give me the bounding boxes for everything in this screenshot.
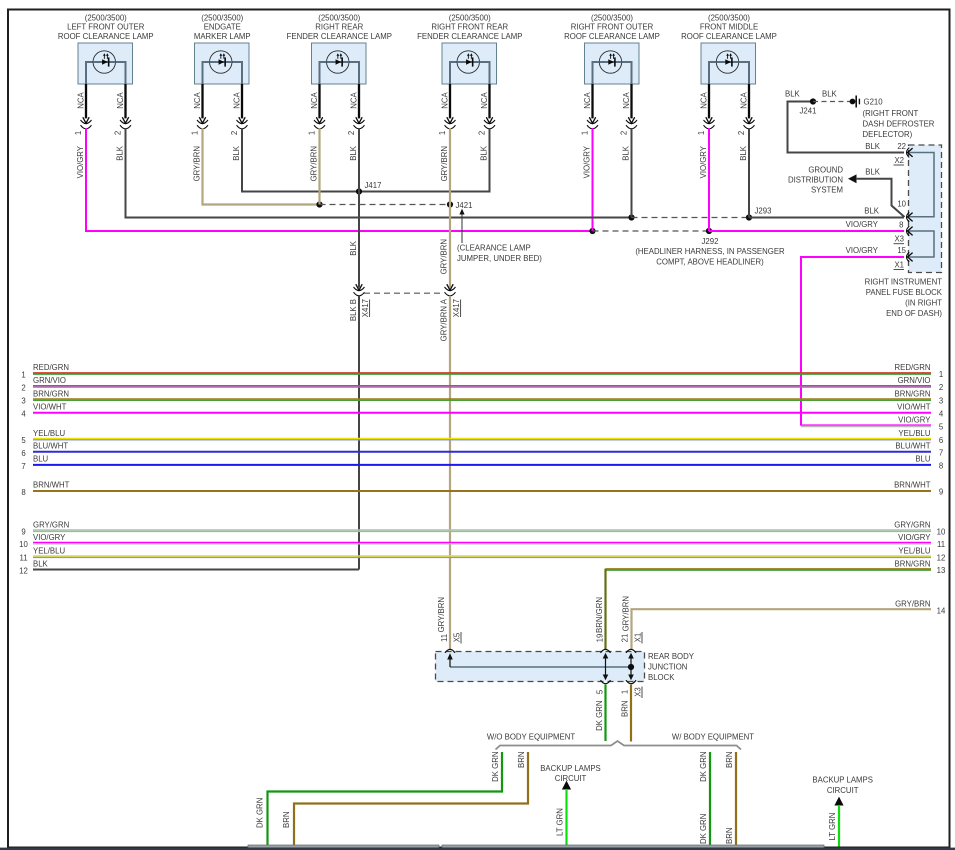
arrow backup lamps circuit (right): [834, 797, 843, 806]
svg-text:9: 9: [939, 488, 943, 497]
svg-text:2: 2: [737, 131, 746, 135]
svg-text:YEL/BLU: YEL/BLU: [898, 429, 930, 438]
wire LT GRN backup lamps (left): [565, 789, 567, 847]
svg-text:BLK: BLK: [349, 240, 358, 256]
junction block through-arrow at x=605.5: [605, 657, 607, 677]
labels circuit row BLU: [21, 455, 943, 471]
svg-text:ENDGATE: ENDGATE: [204, 23, 241, 32]
wire VIO/GRY from lamp B5 pin 1: [592, 128, 594, 231]
lamp B4 right front rear fender clearance lamp: [417, 13, 522, 84]
svg-text:GRY/BRN: GRY/BRN: [440, 146, 449, 181]
svg-text:CIRCUIT: CIRCUIT: [555, 774, 587, 783]
svg-text:VIO/WHT: VIO/WHT: [897, 402, 931, 411]
junction J293: [746, 214, 752, 220]
node G210 terminal: [850, 99, 856, 105]
svg-text:FENDER CLEARANCE LAMP: FENDER CLEARANCE LAMP: [287, 32, 392, 41]
svg-text:2: 2: [230, 131, 239, 135]
svg-text:8: 8: [899, 221, 903, 230]
svg-text:YEL/BLU: YEL/BLU: [33, 546, 65, 555]
bottom component edge (grey bar right): [442, 845, 824, 848]
svg-text:6: 6: [939, 436, 943, 445]
svg-text:DISTRIBUTION: DISTRIBUTION: [788, 176, 843, 185]
svg-text:DK GRN: DK GRN: [491, 752, 500, 782]
wire circuit row 12 BLK: [33, 569, 359, 571]
svg-text:ROOF CLEARANCE LAMP: ROOF CLEARANCE LAMP: [681, 32, 777, 41]
label rear body junction block: [648, 652, 695, 682]
svg-text:BRN: BRN: [725, 828, 734, 844]
connector junction block pin 5 bottom: [601, 680, 611, 684]
svg-text:6: 6: [21, 449, 25, 458]
wire lamp pin 1 NCA lead with connector: [580, 84, 598, 135]
svg-text:DK GRN: DK GRN: [595, 701, 604, 731]
svg-text:RIGHT FRONT OUTER: RIGHT FRONT OUTER: [571, 23, 654, 32]
svg-text:X2: X2: [894, 156, 904, 165]
labels circuit row 12 BLK: [19, 560, 48, 576]
junction block pin 11 arrow: [449, 658, 451, 668]
wire circuit row BLU/WHT: [33, 451, 931, 453]
svg-text:NCA: NCA: [440, 91, 449, 108]
wire circuit row BLU: [33, 464, 931, 466]
bottom component edge (grey bar left): [248, 845, 439, 848]
wire BRN w/o body equipment: [294, 752, 528, 847]
svg-text:7: 7: [21, 462, 25, 471]
svg-text:GRY/BRN: GRY/BRN: [437, 597, 446, 632]
svg-text:GRY/BRN: GRY/BRN: [895, 599, 930, 608]
wire lamp pin 2 NCA lead with connector: [619, 84, 637, 135]
svg-text:J417: J417: [365, 181, 382, 190]
wire BLK to J241 and fuse block pin 22: [788, 102, 905, 153]
svg-text:21: 21: [621, 634, 630, 643]
wire dashed jumper GRY/BRN to J421: [320, 204, 451, 206]
svg-text:BLK: BLK: [115, 145, 124, 161]
svg-text:5: 5: [939, 423, 944, 432]
svg-text:NCA: NCA: [76, 91, 85, 108]
svg-text:9: 9: [21, 528, 25, 537]
svg-text:BLK: BLK: [33, 560, 49, 569]
wire GRY/BRN lamp B2 pin 1: [203, 128, 320, 205]
wire dashed jumper VIO/GRY to J292: [593, 230, 710, 232]
svg-text:7: 7: [939, 449, 943, 458]
wire circuit row BRN/GRN: [33, 399, 931, 400]
svg-text:BRN/GRN: BRN/GRN: [895, 560, 931, 569]
svg-text:4: 4: [939, 409, 944, 418]
labels circuit row BRN/GRN: [21, 389, 943, 405]
svg-text:RIGHT FRONT REAR: RIGHT FRONT REAR: [431, 23, 508, 32]
svg-text:1: 1: [580, 131, 589, 135]
svg-text:BRN: BRN: [282, 812, 291, 828]
wire circuit row YEL/BLU: [33, 556, 931, 557]
connector junction block pin 1 bottom: [626, 680, 636, 684]
svg-text:J421: J421: [456, 201, 473, 210]
callout arrow clearance lamp jumper: [461, 212, 463, 243]
wire circuit row VIO/WHT: [33, 412, 931, 414]
svg-text:BLU: BLU: [33, 455, 49, 464]
svg-text:GRY/GRN: GRY/GRN: [33, 520, 69, 529]
wire BLK lamp B4 pin 2 to J417: [359, 128, 490, 192]
svg-text:BACKUP LAMPS: BACKUP LAMPS: [540, 764, 601, 773]
svg-text:JUNCTION: JUNCTION: [648, 662, 687, 671]
labels circuit row BLU/WHT: [21, 442, 943, 458]
wire circuit row YEL/BLU: [33, 438, 931, 439]
junction J417: [356, 188, 362, 194]
svg-text:NCA: NCA: [739, 91, 748, 108]
wire BLK lamp B2 pin 2 to J417: [242, 128, 359, 192]
svg-text:10: 10: [19, 540, 28, 549]
svg-text:BLK: BLK: [865, 142, 881, 151]
svg-text:VIO/WHT: VIO/WHT: [33, 402, 67, 411]
svg-text:RIGHT REAR: RIGHT REAR: [315, 23, 363, 32]
wire DK GRN junction block pin 5: [604, 685, 606, 742]
branch brace W/O / W/ body equipment: [496, 741, 742, 750]
svg-text:NCA: NCA: [116, 91, 125, 108]
svg-text:BLK: BLK: [785, 90, 801, 99]
labels circuit row VIO/GRY: [898, 416, 944, 432]
wire BRN w/ body equipment: [735, 752, 737, 847]
svg-text:BLU/WHT: BLU/WHT: [33, 442, 68, 451]
label right instrument panel fuse block: [865, 278, 943, 319]
wire lamp pin 2 NCA lead with connector: [347, 84, 365, 135]
junction block through-arrow at x=631: [630, 657, 632, 677]
wire BLK from lamp B1 pin 2: [126, 128, 632, 218]
svg-text:BRN: BRN: [725, 752, 734, 768]
svg-text:VIO/GRY: VIO/GRY: [846, 220, 879, 229]
svg-text:ROOF CLEARANCE LAMP: ROOF CLEARANCE LAMP: [564, 32, 660, 41]
wire BRN/GRN down to junction block pin 19: [604, 569, 606, 649]
labels circuit row GRY/GRN: [21, 520, 946, 536]
svg-text:J293: J293: [755, 207, 772, 216]
svg-text:NCA: NCA: [622, 91, 631, 108]
svg-text:5: 5: [21, 436, 26, 445]
svg-text:COMPT, ABOVE HEADLINER): COMPT, ABOVE HEADLINER): [656, 257, 764, 266]
svg-text:(IN RIGHT: (IN RIGHT: [905, 299, 942, 308]
svg-text:(2500/3500): (2500/3500): [708, 13, 750, 22]
wire BLK J293 to fuse block pin 10: [749, 217, 904, 219]
node junction block splice: [628, 664, 634, 670]
svg-text:11: 11: [440, 634, 449, 642]
wire GRY/BRN lamp B4 pin 1 through J421: [449, 128, 451, 288]
svg-text:X3: X3: [634, 687, 643, 697]
wire BLK lamp B3 pin 2 down through J417 to circuit 12: [358, 128, 360, 288]
svg-text:GRY/BRN: GRY/BRN: [309, 146, 318, 181]
ground G210 symbol: [855, 96, 857, 108]
svg-text:PANEL FUSE BLOCK: PANEL FUSE BLOCK: [866, 288, 943, 297]
svg-text:19: 19: [596, 634, 605, 643]
svg-text:1: 1: [190, 131, 199, 135]
svg-text:NCA: NCA: [480, 91, 489, 108]
svg-text:X1: X1: [634, 633, 643, 643]
svg-text:YEL/BLU: YEL/BLU: [898, 546, 930, 555]
svg-text:BRN/WHT: BRN/WHT: [33, 481, 70, 490]
svg-text:BRN/GRN: BRN/GRN: [33, 389, 69, 398]
svg-text:15: 15: [897, 246, 906, 255]
svg-text:(CLEARANCE LAMP: (CLEARANCE LAMP: [457, 244, 531, 253]
svg-text:8: 8: [21, 488, 25, 497]
svg-text:2: 2: [347, 131, 356, 135]
connector fuse block pin 8 (X3): [907, 226, 910, 236]
wire DK GRN w/ body equipment: [709, 752, 711, 847]
wire GRY/BRN continuation to junction block pin 11: [449, 296, 451, 649]
svg-text:4: 4: [21, 410, 26, 419]
svg-text:1: 1: [21, 371, 25, 380]
labels circuit row YEL/BLU: [21, 429, 943, 445]
svg-text:BLU/WHT: BLU/WHT: [895, 442, 930, 451]
wire circuit row 13 BRN/GRN: [606, 569, 932, 570]
svg-text:(2500/3500): (2500/3500): [201, 13, 243, 22]
label backup lamps circuit (right): [812, 776, 873, 795]
wire lamp pin 2 NCA lead with connector: [737, 84, 755, 135]
svg-text:JUMPER, UNDER BED): JUMPER, UNDER BED): [457, 254, 542, 263]
svg-text:BLK: BLK: [739, 145, 748, 161]
svg-text:BLK: BLK: [865, 167, 881, 176]
svg-text:22: 22: [897, 142, 906, 151]
svg-text:BRN/WHT: BRN/WHT: [894, 481, 931, 490]
svg-text:(2500/3500): (2500/3500): [318, 13, 360, 22]
svg-text:LEFT FRONT OUTER: LEFT FRONT OUTER: [67, 23, 145, 32]
svg-text:GRY/BRN: GRY/BRN: [439, 239, 448, 274]
wire circuit row 14 GRY/BRN: [632, 609, 932, 649]
wire lamp pin 1 NCA lead with connector: [190, 84, 208, 135]
svg-text:BLK: BLK: [864, 207, 880, 216]
svg-text:RIGHT INSTRUMENT: RIGHT INSTRUMENT: [865, 278, 943, 287]
svg-text:X3: X3: [894, 235, 904, 244]
connector X417 cavity A: [447, 284, 453, 290]
svg-text:RED/GRN: RED/GRN: [33, 363, 69, 372]
svg-text:BLU: BLU: [915, 455, 931, 464]
wire dashed BLK J241 to G210: [813, 101, 853, 103]
junction J421: [447, 201, 453, 207]
wire GRY/BRN lamp B3 pin 1: [318, 128, 320, 205]
junction J292: [706, 228, 712, 234]
labels circuit row VIO/WHT: [21, 402, 944, 418]
svg-text:X1: X1: [894, 260, 904, 269]
labels circuit row 13 BRN/GRN: [895, 560, 946, 576]
fuse block internal wire 8-15: [907, 231, 934, 257]
svg-text:VIO/GRY: VIO/GRY: [699, 145, 708, 178]
wire LT GRN backup lamps (right): [838, 805, 840, 847]
svg-text:2: 2: [939, 383, 943, 392]
connector X417 cavity B: [356, 284, 362, 290]
lamp B2 endgate marker lamp: [194, 13, 251, 84]
svg-text:DASH DEFROSTER: DASH DEFROSTER: [863, 120, 935, 129]
svg-text:BLK: BLK: [621, 145, 630, 161]
right instrument panel fuse block body: [909, 145, 942, 273]
labels circuit row YEL/BLU: [19, 546, 945, 562]
wire lamp pin 2 NCA lead with connector: [477, 84, 495, 135]
svg-text:GRN/VIO: GRN/VIO: [898, 376, 931, 385]
svg-text:BRN: BRN: [620, 701, 629, 717]
svg-text:BACKUP LAMPS: BACKUP LAMPS: [812, 776, 873, 785]
wire circuit row GRY/GRN: [33, 530, 931, 531]
svg-text:GROUND: GROUND: [808, 165, 843, 174]
svg-text:2: 2: [477, 131, 486, 135]
svg-text:RED/GRN: RED/GRN: [895, 363, 931, 372]
labels circuit row GRN/VIO: [21, 376, 943, 392]
arrow backup lamps circuit (left): [562, 781, 571, 790]
labels circuit row VIO/GRY: [19, 533, 945, 549]
svg-text:1: 1: [939, 370, 943, 379]
bottom cut-off band: [0, 848, 955, 850]
svg-text:END OF DASH): END OF DASH): [886, 309, 942, 318]
junction J241: [810, 98, 816, 104]
label J292 callout: [635, 237, 785, 266]
svg-text:BRN/GRN: BRN/GRN: [895, 389, 931, 398]
connector fuse block pin 10 (X2): [907, 212, 910, 222]
wire circuit row VIO/GRY: [801, 425, 931, 426]
svg-text:(2500/3500): (2500/3500): [449, 13, 491, 22]
svg-text:X5: X5: [453, 632, 462, 642]
svg-text:J292: J292: [702, 237, 719, 246]
svg-text:NCA: NCA: [699, 91, 708, 108]
svg-text:1: 1: [74, 131, 83, 135]
connector fuse block pin 15 (X1): [907, 252, 910, 262]
svg-text:GRY/BRN: GRY/BRN: [621, 596, 630, 631]
svg-text:BLK: BLK: [822, 90, 838, 99]
node splice on BLK (B5 join): [628, 214, 634, 220]
wire circuit row BRN/WHT: [33, 490, 931, 492]
svg-text:(HEADLINER HARNESS, IN PASSENG: (HEADLINER HARNESS, IN PASSENGER: [635, 247, 785, 256]
svg-text:NCA: NCA: [193, 91, 202, 108]
svg-text:LT GRN: LT GRN: [828, 813, 837, 841]
wire lamp pin 2 NCA lead with connector: [230, 84, 248, 135]
svg-text:X417: X417: [452, 299, 461, 317]
svg-text:BLK: BLK: [349, 145, 358, 161]
svg-text:GRN/VIO: GRN/VIO: [33, 376, 66, 385]
wire BLK fuse block pin 10 to ground distribution: [856, 179, 905, 217]
svg-text:(2500/3500): (2500/3500): [591, 13, 633, 22]
wire BLK continuation to circuit 12: [358, 296, 360, 570]
wire BLK from lamp B5 pin 2: [631, 128, 633, 218]
svg-text:BRN: BRN: [517, 752, 526, 768]
svg-text:3: 3: [939, 396, 943, 405]
svg-text:NCA: NCA: [583, 91, 592, 108]
junction block internal wire: [450, 666, 631, 668]
wire circuit row RED/GRN: [33, 373, 931, 374]
svg-text:BLK: BLK: [479, 145, 488, 161]
label clearance lamp jumper: [457, 244, 542, 264]
connector junction block pin 11 (X5): [445, 649, 455, 653]
svg-text:DEFLECTOR): DEFLECTOR): [863, 130, 913, 139]
svg-text:W/O BODY EQUIPMENT: W/O BODY EQUIPMENT: [487, 732, 575, 741]
arrow to ground distribution system: [848, 174, 857, 183]
svg-text:8: 8: [939, 462, 943, 471]
svg-text:CIRCUIT: CIRCUIT: [827, 786, 859, 795]
svg-text:SYSTEM: SYSTEM: [811, 186, 843, 195]
svg-text:13: 13: [937, 566, 946, 575]
labels circuit row RED/GRN: [21, 363, 943, 379]
connector X417 dashed tie: [364, 292, 444, 294]
svg-text:10: 10: [897, 200, 906, 209]
svg-text:G210: G210: [864, 98, 884, 107]
svg-text:BLK B: BLK B: [349, 299, 358, 321]
svg-text:LT GRN: LT GRN: [555, 808, 564, 836]
labels circuit row 14 GRY/BRN: [895, 599, 946, 615]
svg-text:GRY/BRN: GRY/BRN: [192, 146, 201, 181]
svg-text:14: 14: [937, 607, 946, 616]
lamp B1 left front outer roof clearance lamp: [58, 13, 154, 84]
wire DK GRN w/o body equipment: [268, 752, 503, 847]
wire lamp pin 2 NCA lead with connector: [113, 84, 131, 135]
label backup lamps circuit (left): [540, 764, 601, 783]
wire VIO/GRY from lamp B6 pin 1: [708, 128, 710, 231]
lamp B6 front middle roof clearance lamp: [681, 13, 777, 84]
svg-text:2: 2: [21, 383, 25, 392]
svg-text:12: 12: [19, 567, 28, 576]
connector junction block pin 19 top: [601, 649, 611, 653]
svg-text:BLK: BLK: [232, 145, 241, 161]
wire lamp pin 1 NCA lead with connector: [438, 84, 456, 135]
svg-text:12: 12: [937, 553, 946, 562]
node splice on VIO/GRY (B5 join): [589, 228, 595, 234]
svg-text:VIO/GRY: VIO/GRY: [846, 246, 879, 255]
svg-text:(RIGHT FRONT: (RIGHT FRONT: [863, 109, 919, 118]
svg-text:NCA: NCA: [232, 91, 241, 108]
wire circuit row GRN/VIO: [33, 386, 931, 387]
svg-text:1: 1: [621, 690, 630, 694]
connector junction block pin 21 top: [626, 649, 636, 653]
svg-text:VIO/GRY: VIO/GRY: [33, 533, 66, 542]
svg-text:1: 1: [697, 131, 706, 135]
lamp B3 right rear fender clearance lamp: [287, 13, 392, 84]
wire dashed jumper BLK to J293: [632, 217, 750, 219]
svg-text:2: 2: [113, 131, 122, 135]
svg-text:2: 2: [619, 131, 628, 135]
wire lamp pin 1 NCA lead with connector: [697, 84, 715, 135]
svg-text:VIO/GRY: VIO/GRY: [898, 533, 931, 542]
svg-text:X417: X417: [361, 299, 370, 317]
svg-text:W/ BODY EQUIPMENT: W/ BODY EQUIPMENT: [672, 732, 754, 741]
svg-text:J241: J241: [800, 107, 817, 116]
svg-text:VIO/GRY: VIO/GRY: [898, 416, 931, 425]
svg-text:NCA: NCA: [349, 91, 358, 108]
wire lamp pin 1 NCA lead with connector: [74, 84, 92, 135]
svg-text:BRN/GRN: BRN/GRN: [595, 597, 604, 633]
lamp B5 right front outer roof clearance lamp: [564, 13, 660, 84]
svg-text:YEL/BLU: YEL/BLU: [33, 429, 65, 438]
svg-text:GRY/GRN: GRY/GRN: [894, 520, 930, 529]
svg-text:MARKER LAMP: MARKER LAMP: [194, 32, 251, 41]
svg-text:FENDER CLEARANCE LAMP: FENDER CLEARANCE LAMP: [417, 32, 522, 41]
wire VIO/GRY fuse block pin 15 to circuit 5: [801, 257, 904, 426]
connector fuse block pin 22 (X2): [907, 148, 910, 158]
wire VIO/GRY from lamp B1 pin 1: [86, 128, 593, 231]
fuse block internal wire 22-10: [907, 153, 934, 217]
svg-text:NCA: NCA: [310, 91, 319, 108]
wire circuit row VIO/GRY: [33, 542, 931, 543]
wire VIO/GRY J292 to fuse block pin 8: [709, 230, 904, 232]
svg-text:5: 5: [596, 689, 605, 694]
svg-text:ROOF CLEARANCE LAMP: ROOF CLEARANCE LAMP: [58, 32, 154, 41]
svg-text:1: 1: [307, 131, 316, 135]
svg-text:VIO/GRY: VIO/GRY: [76, 145, 85, 178]
svg-text:DK GRN: DK GRN: [699, 814, 708, 844]
svg-text:BLOCK: BLOCK: [648, 673, 675, 682]
svg-text:11: 11: [19, 554, 27, 563]
svg-text:VIO/GRY: VIO/GRY: [582, 145, 591, 178]
wire BLK from lamp B6 pin 2: [748, 128, 750, 218]
wire BRN junction block pin 1: [630, 685, 632, 742]
label G210 callout: [863, 98, 935, 140]
svg-text:1: 1: [438, 131, 447, 135]
labels circuit row BRN/WHT: [21, 481, 943, 497]
svg-text:10: 10: [937, 527, 946, 536]
svg-text:GRY/BRN A: GRY/BRN A: [439, 298, 448, 341]
svg-text:3: 3: [21, 397, 25, 406]
svg-text:DK GRN: DK GRN: [699, 752, 708, 782]
wire lamp pin 1 NCA lead with connector: [307, 84, 325, 135]
svg-text:11: 11: [937, 540, 945, 549]
node splice GRY/BRN (B3 join): [316, 201, 322, 207]
rear body junction block body: [436, 652, 645, 682]
